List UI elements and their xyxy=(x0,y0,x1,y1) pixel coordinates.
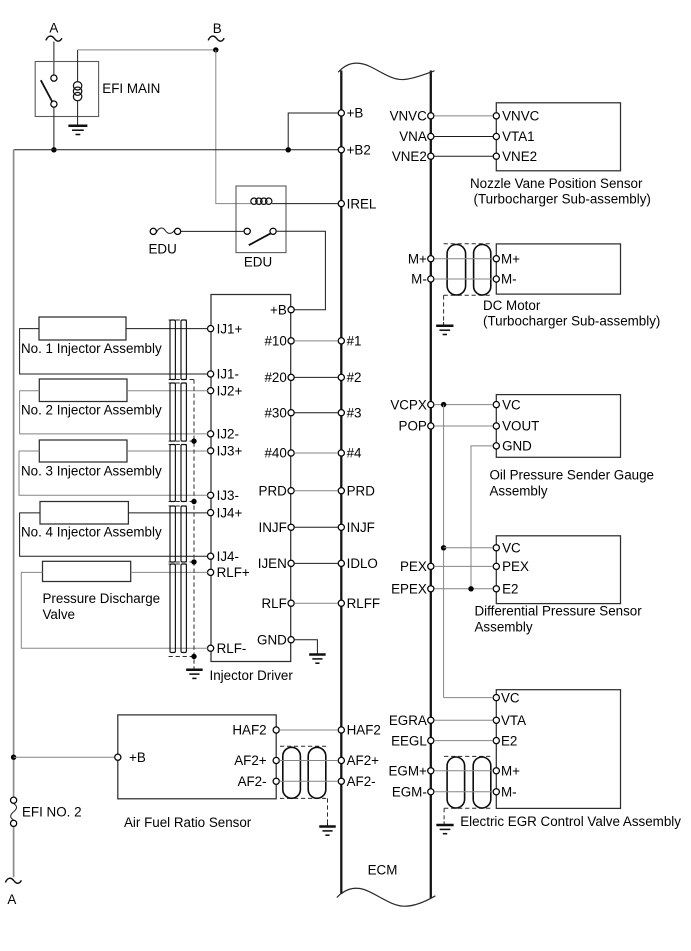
nozzle sensor pin VNVC xyxy=(493,109,539,124)
wire shield drain bus (dashed) xyxy=(193,380,195,667)
nozzle vane position sensor box xyxy=(496,103,620,171)
ECM pin #4 xyxy=(338,446,362,461)
wire injector 1 (+) to IJ1+ xyxy=(126,328,208,330)
shield connector group 2 xyxy=(169,383,194,441)
ECM pin #2 xyxy=(338,370,361,385)
ECM pin #1 xyxy=(338,334,361,349)
svg-text:IJ3+: IJ3+ xyxy=(217,444,243,459)
svg-text:INJF: INJF xyxy=(347,520,375,535)
wire EDU contact to injector driver +B xyxy=(276,231,326,309)
svg-text:EGM+: EGM+ xyxy=(388,764,427,779)
svg-text:No. 2 Injector Assembly: No. 2 Injector Assembly xyxy=(21,402,162,417)
junction shield group 4 xyxy=(191,559,196,564)
svg-text:RLF-: RLF- xyxy=(217,641,247,656)
svg-text:RLF: RLF xyxy=(261,596,286,611)
svg-text:M+: M+ xyxy=(501,251,520,266)
injector driver pin IJEN xyxy=(258,556,294,571)
ECM pin AF2+ xyxy=(338,753,379,768)
injector driver pin IJ3+ xyxy=(208,444,243,459)
svg-text:IJEN: IJEN xyxy=(258,556,287,571)
wire EDU stub to relay contact xyxy=(180,230,244,232)
svg-text:GND: GND xyxy=(257,632,287,647)
ECM pin RLFF xyxy=(338,596,380,611)
svg-text:IJ3-: IJ3- xyxy=(217,488,239,503)
wire M+ xyxy=(434,258,493,260)
injector driver pin RLF+ xyxy=(208,565,250,580)
DC motor box xyxy=(496,244,620,294)
wire injector driver IJEN to ECM xyxy=(294,562,338,564)
injector driver pin INJF xyxy=(259,520,295,535)
svg-text:IJ1+: IJ1+ xyxy=(217,321,243,336)
oil pressure sender gauge box xyxy=(496,395,620,458)
wire injector 3 (-) loop to IJ3- xyxy=(19,451,208,495)
svg-text:RLFF: RLFF xyxy=(347,596,380,611)
nozzle sensor pin VNE2 xyxy=(493,149,537,164)
injector driver pin #40 xyxy=(264,446,294,461)
wire HAF2 xyxy=(279,729,338,731)
junction shield group 5 xyxy=(191,654,196,659)
injector assembly No.2 xyxy=(39,379,127,402)
svg-text:VC: VC xyxy=(501,690,520,705)
EGR valve pin M+ xyxy=(493,764,520,779)
wire injector 3 (+) to IJ3+ xyxy=(127,450,208,452)
fuse EFI NO. 2 xyxy=(11,797,17,826)
junction (+B of A/F sensor) xyxy=(11,755,16,760)
svg-text:EGRA: EGRA xyxy=(389,713,427,728)
ECM pin M+ xyxy=(408,251,434,266)
svg-text:#1: #1 xyxy=(347,334,362,349)
shield connector group 3 xyxy=(169,445,194,502)
wire VCPX to VC xyxy=(434,404,493,406)
wire injector driver RLF to ECM xyxy=(294,602,338,604)
wire AF2- xyxy=(279,780,338,782)
svg-text:Oil Pressure Sender Gauge: Oil Pressure Sender Gauge xyxy=(490,468,655,483)
wire POP to VOUT xyxy=(434,425,493,427)
A/F sensor pin HAF2 xyxy=(232,723,279,738)
svg-text:Nozzle Vane Position Sensor: Nozzle Vane Position Sensor xyxy=(470,176,643,191)
ECM pin IREL xyxy=(338,196,376,211)
svg-text:Injector Driver: Injector Driver xyxy=(210,668,294,683)
svg-text:VCPX: VCPX xyxy=(390,397,427,412)
wire EPEX to E2 xyxy=(434,588,493,590)
differential pressure sensor pin E2 xyxy=(493,582,518,597)
junction (VC rail top) xyxy=(441,402,446,407)
svg-text:E2: E2 xyxy=(501,733,517,748)
wire EGM- to M- xyxy=(434,791,493,793)
svg-text:VTA1: VTA1 xyxy=(502,129,534,144)
svg-text:M-: M- xyxy=(501,272,517,287)
oil pressure sender pin VC xyxy=(493,397,521,412)
injector driver pin IJ1+ xyxy=(208,321,243,336)
relay EFI MAIN xyxy=(35,50,98,126)
injector driver box xyxy=(211,295,291,662)
svg-text:EPEX: EPEX xyxy=(391,582,427,597)
wire sensor GND to E2 rail xyxy=(471,446,493,589)
wire VC rail to EGR VC xyxy=(444,697,494,699)
wire VNA to VTA1 xyxy=(434,136,493,138)
svg-text:M+: M+ xyxy=(408,251,427,266)
connector EDU stub xyxy=(150,228,181,234)
ECM pin +B2 xyxy=(338,143,371,158)
wire EGR filter shield to ground (dashed) xyxy=(443,808,445,821)
svg-text:IJ2+: IJ2+ xyxy=(217,383,243,398)
svg-text:EGM-: EGM- xyxy=(392,785,427,800)
nozzle sensor pin VTA1 xyxy=(493,129,534,144)
svg-text:Assembly: Assembly xyxy=(475,620,533,635)
ECM pin VNE2 xyxy=(392,149,434,164)
ECM pin EGM+ xyxy=(388,764,433,779)
ECM pin EGM- xyxy=(392,785,434,800)
svg-text:#10: #10 xyxy=(264,334,286,349)
ECM pin PRD xyxy=(338,483,375,498)
svg-text:VC: VC xyxy=(502,541,521,556)
wire fuse to node A (bottom) xyxy=(13,827,15,877)
svg-text:#4: #4 xyxy=(347,446,362,461)
injector driver pin IJ4+ xyxy=(208,505,243,520)
svg-text:EDU: EDU xyxy=(149,241,177,256)
ground (EGR filter) xyxy=(436,821,453,833)
svg-text:IDLO: IDLO xyxy=(347,556,378,571)
svg-text:EFI NO. 2: EFI NO. 2 xyxy=(22,804,82,819)
wire VNE2 xyxy=(434,155,493,157)
injector driver pin IJ1- xyxy=(208,367,239,382)
ECM pin +B xyxy=(338,106,363,121)
junction shield group 2 xyxy=(191,438,196,443)
wire injector driver #20 to ECM xyxy=(294,376,338,378)
ECM pin AF2- xyxy=(338,774,375,789)
svg-text:INJF: INJF xyxy=(259,520,287,535)
DC motor pin M- xyxy=(493,272,516,287)
shield connector group 5 xyxy=(169,564,194,657)
wire A/F filter shield to ground (dashed) xyxy=(327,798,329,822)
wire VC rail to diff sensor VC xyxy=(444,547,493,549)
injector driver pin PRD xyxy=(259,483,295,498)
wire injector 2 (-) loop to IJ2- xyxy=(20,391,208,434)
svg-text:POP: POP xyxy=(399,419,427,434)
svg-text:#20: #20 xyxy=(264,370,286,385)
svg-text:EFI MAIN: EFI MAIN xyxy=(102,81,160,96)
svg-text:PEX: PEX xyxy=(502,559,529,574)
svg-text:(Turbocharger Sub-assembly): (Turbocharger Sub-assembly) xyxy=(474,191,651,206)
injector assembly No.3 xyxy=(39,440,127,462)
EGR valve pin M- xyxy=(493,785,516,800)
ECM pin EEGL xyxy=(391,733,434,748)
wire EEGL to E2 xyxy=(434,740,493,742)
svg-text:IJ2-: IJ2- xyxy=(217,427,239,442)
wire filter shield to ground (dashed) xyxy=(443,295,445,322)
EGR valve pin E2 xyxy=(493,733,517,748)
wire injector driver #10 to ECM xyxy=(294,340,338,342)
ECM pin VNA xyxy=(399,129,434,144)
relay EDU xyxy=(236,186,286,253)
svg-text:No. 1 Injector Assembly: No. 1 Injector Assembly xyxy=(21,341,162,356)
noise filter (A/F sensor leads) xyxy=(280,746,329,798)
svg-text:VOUT: VOUT xyxy=(502,419,539,434)
injector driver pin RLF xyxy=(261,596,294,611)
junction (GND link / E2) xyxy=(468,586,473,591)
injector driver pin +B xyxy=(270,302,294,317)
svg-text:IREL: IREL xyxy=(347,196,377,211)
ECM pin VCPX xyxy=(390,397,434,412)
injector assembly No.4 xyxy=(40,502,128,525)
wire injector driver INJF to ECM xyxy=(294,526,338,528)
svg-text:RLF+: RLF+ xyxy=(217,565,250,580)
EGR valve pin VTA xyxy=(493,713,526,728)
wire EFI MAIN coil to node B xyxy=(78,49,216,51)
svg-text:A: A xyxy=(49,21,58,36)
svg-text:VTA: VTA xyxy=(501,713,526,728)
differential pressure sensor pin VC xyxy=(493,541,521,556)
injector driver pin #20 xyxy=(264,370,294,385)
node A (bottom) xyxy=(5,878,21,907)
svg-text:Air Fuel Ratio Sensor: Air Fuel Ratio Sensor xyxy=(124,815,252,830)
DC motor pin M+ xyxy=(493,251,520,266)
svg-text:PEX: PEX xyxy=(400,559,427,574)
oil pressure sender pin GND xyxy=(493,439,532,454)
pressure discharge valve xyxy=(43,561,131,581)
junction (+B drop on +B2 rail) xyxy=(286,147,291,152)
oil pressure sender pin VOUT xyxy=(493,419,539,434)
svg-text:Differential Pressure Sensor: Differential Pressure Sensor xyxy=(475,604,643,619)
svg-text:B: B xyxy=(213,21,222,36)
ground (DC motor filter) xyxy=(436,322,453,335)
injector driver pin IJ2+ xyxy=(208,383,243,398)
wire injector driver #30 to ECM xyxy=(294,412,338,414)
svg-text:#40: #40 xyxy=(264,446,286,461)
wire injector 4 (-) loop to IJ4- xyxy=(20,513,208,556)
injector driver pin #10 xyxy=(264,334,294,349)
ground (A/F filter) xyxy=(319,823,336,835)
wire VNVC xyxy=(434,115,493,117)
wire injector driver PRD to ECM xyxy=(294,490,338,492)
svg-text:HAF2: HAF2 xyxy=(347,723,381,738)
svg-text:PRD: PRD xyxy=(259,483,288,498)
wire injector driver #40 to ECM xyxy=(294,452,338,454)
wire PEX xyxy=(434,565,493,567)
svg-text:VC: VC xyxy=(502,397,521,412)
svg-text:VNVC: VNVC xyxy=(390,109,428,124)
injector driver pin IJ3- xyxy=(208,488,239,503)
svg-text:IJ1-: IJ1- xyxy=(217,367,239,382)
svg-text:#30: #30 xyxy=(264,405,286,420)
ECM pin HAF2 xyxy=(338,723,381,738)
wire M- xyxy=(434,278,493,280)
wire AF2+ xyxy=(279,760,338,762)
svg-text:AF2+: AF2+ xyxy=(347,753,380,768)
ECM pin #3 xyxy=(338,405,361,420)
noise filter (EGR motor leads) xyxy=(444,756,492,808)
shield connector group 1 xyxy=(169,320,194,380)
ECM pin EPEX xyxy=(391,582,434,597)
svg-text:EDU: EDU xyxy=(244,254,272,269)
wire PDV (-) loop to RLF- xyxy=(21,572,208,648)
svg-text:No. 3 Injector Assembly: No. 3 Injector Assembly xyxy=(21,463,162,478)
svg-text:GND: GND xyxy=(502,439,532,454)
svg-text:IJ4-: IJ4- xyxy=(217,549,239,564)
svg-text:M-: M- xyxy=(501,785,517,800)
svg-text:No. 4 Injector Assembly: No. 4 Injector Assembly xyxy=(21,525,162,540)
svg-text:ECM: ECM xyxy=(368,863,398,878)
svg-text:VNE2: VNE2 xyxy=(392,149,427,164)
wire injector 1 (-) loop to IJ1- xyxy=(20,329,208,374)
ECM body xyxy=(337,63,436,906)
svg-text:M-: M- xyxy=(411,272,427,287)
A/F sensor pin +B xyxy=(115,750,146,765)
svg-text:#3: #3 xyxy=(347,405,362,420)
ECM pin INJF xyxy=(338,520,375,535)
svg-text:#2: #2 xyxy=(347,370,362,385)
ECM pin POP xyxy=(399,419,434,434)
svg-text:Electric EGR Control Valve Ass: Electric EGR Control Valve Assembly xyxy=(460,814,681,829)
ground (EFI MAIN coil) xyxy=(68,126,87,135)
injector driver pin IJ4- xyxy=(208,549,239,564)
wire EGM+ to M+ xyxy=(434,770,493,772)
svg-text:+B: +B xyxy=(270,302,287,317)
svg-text:Valve: Valve xyxy=(43,607,76,622)
wire PDV (+) to RLF+ xyxy=(131,571,208,573)
injector driver pin IJ2- xyxy=(208,427,239,442)
svg-text:PRD: PRD xyxy=(347,483,376,498)
svg-text:Assembly: Assembly xyxy=(490,484,548,499)
wire ECM +B to +B2 rail xyxy=(288,113,338,150)
svg-text:(Turbocharger Sub-assembly): (Turbocharger Sub-assembly) xyxy=(483,314,660,329)
node B xyxy=(208,21,224,53)
svg-text:+B: +B xyxy=(129,750,146,765)
ground (injector shield drain) xyxy=(186,666,203,678)
svg-text:A: A xyxy=(7,892,16,907)
differential pressure sensor box xyxy=(496,536,620,604)
wire A to EFI MAIN switch xyxy=(53,42,55,76)
A/F sensor pin AF2+ xyxy=(234,753,279,768)
wire injector 4 (+) to IJ4+ xyxy=(128,512,207,514)
wire EDU coil to ECM IREL xyxy=(272,203,338,205)
ECM pin IDLO xyxy=(338,556,378,571)
svg-text:VNE2: VNE2 xyxy=(502,149,537,164)
injector assembly No.1 xyxy=(39,317,126,340)
svg-text:DC Motor: DC Motor xyxy=(483,298,541,313)
wire EFI MAIN switch to +B2 rail xyxy=(53,107,55,150)
injector driver pin #30 xyxy=(264,405,294,420)
shield connector group 4 xyxy=(169,506,194,562)
svg-text:IJ4+: IJ4+ xyxy=(217,505,243,520)
svg-text:AF2+: AF2+ xyxy=(234,753,267,768)
wire EGRA to VTA xyxy=(434,719,493,721)
wire node B down to EDU relay coil xyxy=(216,50,253,204)
EGR valve pin VC xyxy=(493,690,520,705)
noise filter (DC motor leads) xyxy=(444,244,493,296)
differential pressure sensor pin PEX xyxy=(493,559,529,574)
wire battery rail to A/F +B xyxy=(14,756,115,758)
svg-text:HAF2: HAF2 xyxy=(232,723,266,738)
wire injector 2 (+) to IJ2+ xyxy=(127,390,208,392)
air fuel ratio sensor box xyxy=(118,715,276,799)
ECM pin M- xyxy=(411,272,434,287)
svg-text:VNA: VNA xyxy=(399,129,427,144)
svg-text:M+: M+ xyxy=(501,764,520,779)
wire VC rail xyxy=(443,405,445,698)
wire left battery rail xyxy=(13,150,15,797)
svg-text:+B: +B xyxy=(347,106,364,121)
junction shield group 3 xyxy=(191,499,196,504)
injector driver pin GND xyxy=(257,632,294,647)
wire injector driver GND to ground xyxy=(294,640,317,655)
node A (top) xyxy=(46,21,62,42)
svg-text:E2: E2 xyxy=(502,582,518,597)
wire +B2 rail xyxy=(14,149,339,151)
svg-text:AF2-: AF2- xyxy=(347,774,376,789)
ECM pin EGRA xyxy=(389,713,434,728)
svg-text:+B2: +B2 xyxy=(347,143,371,158)
svg-text:Pressure Discharge: Pressure Discharge xyxy=(43,591,161,606)
junction (switch / +B2 rail) xyxy=(51,147,56,152)
ECM pin VNVC xyxy=(390,109,434,124)
svg-text:AF2-: AF2- xyxy=(238,774,267,789)
junction (VC rail / diff sensor VC) xyxy=(441,545,446,550)
A/F sensor pin AF2- xyxy=(238,774,280,789)
ground (injector driver GND) xyxy=(309,655,326,664)
electric EGR control valve box xyxy=(496,690,620,809)
svg-text:EEGL: EEGL xyxy=(391,733,427,748)
injector driver pin RLF- xyxy=(208,641,247,656)
svg-text:VNVC: VNVC xyxy=(502,109,540,124)
ECM pin PEX xyxy=(400,559,434,574)
